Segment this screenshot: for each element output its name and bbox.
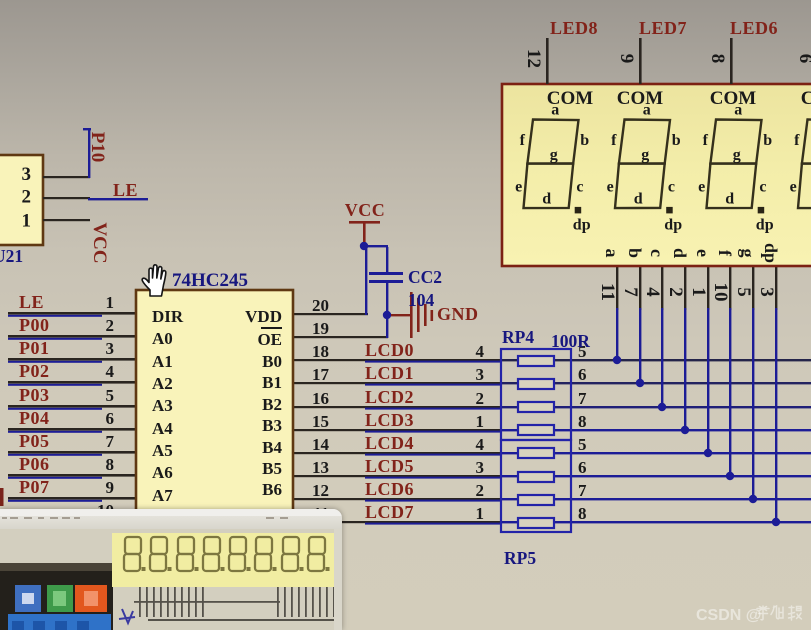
svg-text:3: 3 — [476, 365, 485, 384]
svg-text:5: 5 — [733, 287, 754, 297]
svg-text:c: c — [647, 249, 667, 257]
svg-text:P03: P03 — [19, 385, 50, 405]
svg-text:OE: OE — [257, 330, 282, 349]
svg-text:74HC245: 74HC245 — [172, 270, 248, 291]
svg-text:19: 19 — [312, 319, 329, 338]
svg-text:COM: COM — [617, 88, 664, 109]
svg-text:6: 6 — [578, 365, 587, 384]
svg-text:11: 11 — [597, 283, 618, 301]
svg-text:8: 8 — [578, 504, 587, 523]
svg-text:COM: COM — [547, 88, 594, 109]
svg-text:8: 8 — [106, 455, 115, 474]
svg-text:4: 4 — [476, 342, 485, 361]
svg-text:U21: U21 — [0, 246, 23, 266]
svg-text:16: 16 — [312, 389, 329, 408]
svg-text:2: 2 — [22, 187, 32, 208]
svg-text:A4: A4 — [152, 419, 173, 438]
svg-text:f: f — [715, 250, 735, 257]
svg-text:1: 1 — [476, 504, 485, 523]
svg-text:LCD5: LCD5 — [365, 456, 414, 476]
svg-text:RP4: RP4 — [502, 327, 534, 347]
svg-text:4: 4 — [642, 287, 663, 297]
svg-text:8: 8 — [578, 412, 587, 431]
svg-text:9: 9 — [616, 54, 637, 64]
svg-text:7: 7 — [106, 432, 115, 451]
svg-text:7: 7 — [578, 389, 587, 408]
svg-text:LED8: LED8 — [550, 18, 598, 38]
svg-text:GND: GND — [437, 304, 479, 324]
svg-text:1: 1 — [688, 287, 709, 297]
svg-text:104: 104 — [408, 290, 435, 310]
svg-text:6: 6 — [795, 54, 811, 64]
svg-text:LE: LE — [19, 292, 44, 312]
svg-text:4: 4 — [476, 435, 485, 454]
svg-text:14: 14 — [312, 435, 330, 454]
svg-text:12: 12 — [312, 481, 329, 500]
svg-text:1: 1 — [476, 412, 485, 431]
svg-text:P05: P05 — [19, 431, 50, 451]
svg-text:3: 3 — [476, 458, 485, 477]
svg-text:100R: 100R — [551, 331, 590, 351]
svg-text:6: 6 — [106, 409, 115, 428]
svg-text:P02: P02 — [19, 361, 50, 381]
svg-text:B2: B2 — [262, 395, 282, 414]
svg-text:A3: A3 — [152, 396, 173, 415]
svg-text:1: 1 — [106, 293, 115, 312]
svg-text:1: 1 — [22, 211, 32, 232]
svg-text:18: 18 — [312, 342, 329, 361]
svg-text:B4: B4 — [262, 438, 282, 457]
svg-text:DIR: DIR — [152, 307, 184, 326]
svg-text:B1: B1 — [262, 373, 282, 392]
svg-text:COM: COM — [710, 88, 757, 109]
svg-text:2: 2 — [476, 481, 485, 500]
svg-text:LE: LE — [113, 180, 138, 200]
svg-text:3: 3 — [22, 164, 32, 185]
svg-text:P07: P07 — [19, 477, 50, 497]
svg-text:5: 5 — [578, 435, 587, 454]
svg-text:LED6: LED6 — [730, 18, 778, 38]
svg-text:COM: COM — [801, 88, 811, 109]
svg-text:VDD: VDD — [245, 307, 282, 326]
svg-text:A7: A7 — [152, 486, 173, 505]
svg-text:4: 4 — [106, 362, 115, 381]
svg-text:LCD0: LCD0 — [365, 340, 414, 360]
svg-text:B0: B0 — [262, 352, 282, 371]
svg-text:g: g — [738, 249, 758, 258]
svg-text:12: 12 — [523, 49, 544, 68]
svg-text:10: 10 — [710, 283, 731, 302]
svg-text:B6: B6 — [262, 480, 282, 499]
svg-text:2: 2 — [665, 287, 686, 297]
svg-text:20: 20 — [312, 296, 329, 315]
svg-text:7: 7 — [620, 287, 641, 297]
svg-text:VCC: VCC — [345, 200, 386, 220]
svg-text:LCD3: LCD3 — [365, 410, 414, 430]
svg-text:2: 2 — [106, 316, 115, 335]
svg-text:8: 8 — [707, 54, 728, 64]
svg-text:P06: P06 — [19, 454, 50, 474]
svg-text:LCD1: LCD1 — [365, 363, 414, 383]
svg-text:RP5: RP5 — [504, 548, 536, 568]
svg-text:2: 2 — [476, 389, 485, 408]
svg-text:e: e — [693, 249, 713, 257]
svg-text:A5: A5 — [152, 441, 173, 460]
svg-text:LCD2: LCD2 — [365, 387, 414, 407]
svg-text:d: d — [670, 248, 690, 258]
svg-text:15: 15 — [312, 412, 329, 431]
svg-text:17: 17 — [312, 365, 330, 384]
svg-text:LED7: LED7 — [639, 18, 687, 38]
svg-text:VCC: VCC — [89, 222, 110, 263]
svg-text:A1: A1 — [152, 352, 173, 371]
svg-text:5: 5 — [106, 386, 115, 405]
svg-text:3: 3 — [106, 339, 115, 358]
svg-text:B3: B3 — [262, 416, 282, 435]
svg-text:B5: B5 — [262, 459, 282, 478]
svg-text:P04: P04 — [19, 408, 50, 428]
svg-text:6: 6 — [578, 458, 587, 477]
svg-text:P00: P00 — [19, 315, 50, 335]
svg-text:7: 7 — [578, 481, 587, 500]
svg-text:P10: P10 — [87, 132, 108, 163]
svg-text:CC2: CC2 — [408, 267, 442, 287]
svg-text:3: 3 — [756, 287, 777, 297]
svg-text:b: b — [625, 248, 645, 258]
svg-text:LCD6: LCD6 — [365, 479, 414, 499]
svg-text:A0: A0 — [152, 329, 173, 348]
svg-text:LCD4: LCD4 — [365, 433, 414, 453]
svg-text:dp: dp — [761, 243, 781, 263]
svg-text:a: a — [602, 249, 622, 258]
svg-text:P01: P01 — [19, 338, 50, 358]
svg-text:A6: A6 — [152, 463, 173, 482]
svg-text:A2: A2 — [152, 374, 173, 393]
svg-text:CSDN @: CSDN @ — [696, 607, 761, 624]
svg-text:9: 9 — [106, 478, 115, 497]
svg-text:13: 13 — [312, 458, 329, 477]
svg-text:LCD7: LCD7 — [365, 502, 414, 522]
